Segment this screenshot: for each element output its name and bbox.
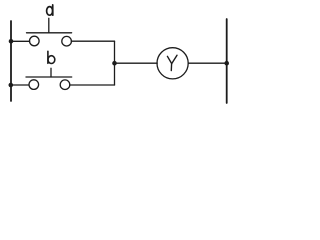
wire: left rail to contact a left terminal xyxy=(11,40,30,42)
coil Y circle xyxy=(157,48,188,79)
node junction dot: join line / output wire xyxy=(112,61,117,66)
wire: contact a right terminal to join line xyxy=(71,40,114,42)
node junction dot: left rail / branch a xyxy=(9,39,14,44)
left supply rail xyxy=(10,21,12,101)
wire: coil Y to right rail xyxy=(188,62,227,64)
node junction dot: right rail / output wire xyxy=(224,61,229,66)
label a xyxy=(47,5,53,15)
pushbutton contact b, actuator stem xyxy=(50,68,52,77)
right supply rail xyxy=(226,19,228,103)
wire: left rail to contact b left terminal xyxy=(11,84,29,86)
pushbutton contact a, actuator bar xyxy=(27,32,72,34)
coil label Y xyxy=(167,55,177,70)
pushbutton contact b, left terminal xyxy=(29,80,39,90)
pushbutton contact b, actuator bar xyxy=(26,76,72,78)
pushbutton contact a, actuator stem xyxy=(48,18,50,33)
pushbutton contact a, right terminal xyxy=(62,36,72,46)
wire: vertical join line of branches a and b xyxy=(114,41,116,85)
pushbutton contact b, right terminal xyxy=(60,80,70,90)
label b xyxy=(48,51,55,63)
node junction dot: left rail / branch b xyxy=(9,83,14,88)
pushbutton contact a, left terminal xyxy=(30,36,40,46)
wire: join line to coil Y xyxy=(115,62,158,64)
wire: contact b right terminal to join line xyxy=(70,84,115,86)
